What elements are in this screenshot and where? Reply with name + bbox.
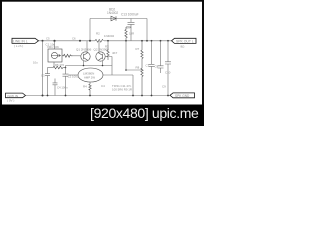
svg-text:VR1 50K: VR1 50K <box>47 45 59 49</box>
resistor R11 <box>48 66 66 69</box>
svg-text:C14: C14 <box>126 26 132 30</box>
svg-text:SPK GND: SPK GND <box>175 94 190 98</box>
wire feedback vertical <box>126 41 142 70</box>
wire <box>146 19 148 41</box>
wire pot bottom <box>53 62 55 68</box>
svg-text:( L ch ): ( L ch ) <box>14 44 23 48</box>
svg-text:4K7: 4K7 <box>112 51 118 55</box>
wire <box>89 19 91 41</box>
svg-text:C8: C8 <box>155 65 159 69</box>
wire emitters down <box>84 61 103 66</box>
junction <box>65 67 67 69</box>
resistor R4 <box>89 82 91 96</box>
svg-text:C5: C5 <box>46 36 50 40</box>
svg-text:100 5R6 R9 1R: 100 5R6 R9 1R <box>112 87 132 91</box>
svg-text:( 0V ): ( 0V ) <box>7 99 14 103</box>
svg-text:[920x480] upic.me: [920x480] upic.me <box>90 105 199 121</box>
svg-text:C2 100u: C2 100u <box>68 75 79 79</box>
wire IC left pin <box>69 74 79 76</box>
svg-text:10R: 10R <box>129 32 134 36</box>
frame top edge <box>0 0 204 2</box>
svg-text:R7: R7 <box>136 47 140 51</box>
label box LINE IN R <box>6 93 26 98</box>
capacitor C7 <box>149 41 155 96</box>
wire Q1 collector up <box>86 41 88 52</box>
svg-text:LINE IN L: LINE IN L <box>13 40 28 44</box>
resistor R3 <box>107 45 109 60</box>
wire <box>103 74 133 76</box>
svg-text:10u: 10u <box>33 61 38 65</box>
potentiometer VR1 <box>48 49 62 62</box>
svg-text:Q1 2N3906: Q1 2N3906 <box>76 48 92 52</box>
svg-text:R5 470: R5 470 <box>55 63 64 67</box>
wire output vertical <box>132 75 134 96</box>
label box SPK OUT L <box>172 38 197 43</box>
resistor R10 <box>125 27 131 41</box>
svg-text:R2: R2 <box>96 32 100 36</box>
resistor R2 series <box>95 39 103 42</box>
wire <box>73 55 81 57</box>
svg-text:C4: C4 <box>101 84 105 88</box>
capacitor C13 <box>128 19 135 41</box>
svg-text:SPK OUT L: SPK OUT L <box>176 40 194 44</box>
emitter rail wire <box>66 65 113 67</box>
capacitor C3 <box>45 68 50 96</box>
svg-text:C4 100n: C4 100n <box>57 86 68 90</box>
svg-text:C6: C6 <box>72 37 76 41</box>
IC U1 <box>78 68 103 82</box>
bottom watermark bar <box>0 105 204 127</box>
capacitor C8 <box>158 41 164 73</box>
capacitor C10 speaker coupling <box>165 41 171 96</box>
node junctions top rail <box>42 40 169 42</box>
text cluster mid-bottom <box>57 84 166 91</box>
capacitor C2 <box>63 66 69 96</box>
top rail wire <box>39 40 172 42</box>
svg-text:C3: C3 <box>41 74 45 78</box>
svg-text:C10: C10 <box>165 71 171 75</box>
svg-text:R8: R8 <box>136 66 140 70</box>
svg-text:C13 1000uF: C13 1000uF <box>121 13 139 17</box>
svg-text:C9: C9 <box>162 85 166 89</box>
svg-text:R3: R3 <box>105 45 109 49</box>
power rail text B+ <box>107 8 139 17</box>
wire to volume <box>54 41 56 49</box>
svg-text:R4: R4 <box>83 85 87 89</box>
resistor R8 <box>141 64 143 96</box>
frame right edge <box>202 0 204 126</box>
transistor Q1 <box>81 52 90 61</box>
capacitor C6 <box>53 79 58 96</box>
resistor R1 <box>62 54 73 57</box>
label box LINE IN L <box>12 38 39 43</box>
resistor R7 <box>141 41 143 64</box>
diode BD2 <box>111 16 116 21</box>
svg-text:1N4002: 1N4002 <box>104 34 115 38</box>
wire power rail <box>90 18 147 20</box>
svg-text:C7: C7 <box>146 64 150 68</box>
svg-text:AMP 2W: AMP 2W <box>84 76 95 80</box>
label box SPK OUT R <box>170 93 195 98</box>
wire Q2 collector up <box>98 41 100 52</box>
transistor Q2 <box>96 52 105 61</box>
svg-text:1N4002: 1N4002 <box>107 11 118 15</box>
bottom ground rail wire <box>26 95 170 97</box>
wire input vertical <box>42 41 44 96</box>
wire <box>105 57 112 76</box>
white paper background <box>0 0 204 126</box>
frame left edge <box>0 0 2 126</box>
